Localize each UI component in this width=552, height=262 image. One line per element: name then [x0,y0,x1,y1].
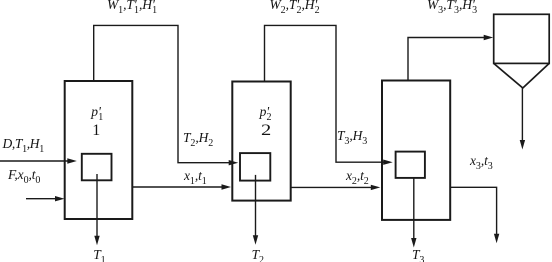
label x2,t2 liquor between effects 2-3 [346,169,369,183]
label T2,H2 vapor to effect 2 heater [183,131,213,145]
label p'1 pressure in effect 1 [91,105,103,119]
wire: liquor feed F,x0,t0 into effect 1 [26,196,65,201]
evaporator effect 2 vessel [232,82,290,201]
wire: liquor x2,t2 from effect 2 to effect 3 [291,185,381,190]
condenser/separator vessel top-right [494,14,550,88]
label x1,t1 liquor between effects 1-2 [184,169,207,183]
label x3,t3 product stream [470,154,493,168]
wire: product x3,t3 out of effect 3 [450,187,499,243]
wire: condensate T2 out of effect 2 heater [253,175,258,245]
evaporator effect 1 vessel [65,81,133,219]
label T1 condensate [93,248,105,262]
label W3,T'3,H'3 vapor line 3 [427,0,477,12]
wire: vapor W3 from effect 3 top to condenser [408,35,493,81]
heater (steam chest) of effect 3 [396,152,425,178]
evaporator effect 3 vessel [382,81,450,220]
label 1 effect number [92,123,100,139]
wire: condensate T1 out of effect 1 heater [94,174,99,245]
wire: vapor W1 from effect 1 top to effect 2 heater [94,25,239,165]
label W2,T'2,H'2 vapor line 2 [270,0,320,12]
wire: steam feed D,T1,H1 into effect 1 heater [0,158,77,163]
wire: condenser outlet arrow [520,88,525,150]
heater (steam chest) of effect 2 [240,153,270,181]
label D,T1,H1 steam feed [3,137,44,151]
wire: vapor W2 from effect 2 top to effect 3 heater [265,25,393,165]
label T3,H3 vapor to effect 3 heater [337,129,367,143]
label T3 condensate [412,248,424,262]
wire: liquor x1,t1 from effect 1 to effect 2 [132,184,231,189]
label W1,T'1,H'1 vapor line 1 [107,0,157,12]
wire: condensate T3 out of effect 3 heater [411,178,416,248]
heater (steam chest) of effect 1 [82,154,112,181]
label p'2 pressure in effect 2 [260,105,272,119]
label F,x0,t0 liquor feed [8,168,40,182]
label T2 condensate [252,248,264,262]
label 2 effect number [261,123,271,139]
